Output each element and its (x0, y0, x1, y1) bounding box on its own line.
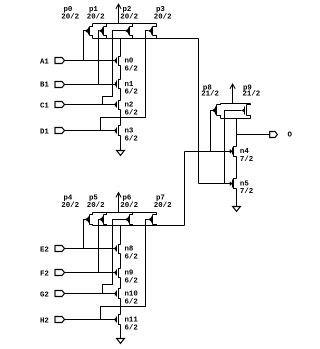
transistor n9 (115, 269, 120, 278)
svg-text:F2: F2 (40, 270, 49, 278)
wire drain bus (bottom NAND output) (93, 225, 185, 227)
label p4 (64, 194, 73, 202)
label p0 (64, 6, 73, 14)
wire top NAND output down (198, 39, 200, 184)
label p2 (123, 6, 132, 14)
wire G2 to gates (65, 293, 116, 295)
svg-text:n4: n4 (240, 148, 249, 156)
port C1 (55, 102, 65, 108)
ground (NAND2) (233, 207, 241, 212)
label n1 (125, 81, 134, 89)
wire output bus down (236, 119, 238, 147)
svg-text:6/2: 6/2 (125, 89, 138, 97)
svg-text:E2: E2 (40, 246, 49, 254)
svg-text:n2: n2 (125, 102, 134, 110)
port E2 (55, 246, 65, 252)
wire p0 gate lead (84, 31, 86, 61)
wire C1 to gates (65, 104, 116, 106)
label n11 (125, 317, 139, 325)
svg-text:n5: n5 (240, 180, 249, 188)
wire chain bus to n0 (120, 39, 122, 57)
wire bottom NAND output up (184, 152, 186, 226)
label n8 (125, 246, 134, 254)
wire n10 to n11 (120, 299, 122, 315)
wire B1 to gates (65, 84, 116, 86)
wire p5 gate lead (99, 220, 100, 273)
svg-text:6/2: 6/2 (125, 324, 138, 332)
label p9 (243, 85, 252, 93)
svg-text:7/2: 7/2 (240, 188, 253, 196)
ground (top NAND) (117, 151, 125, 156)
svg-text:G2: G2 (40, 291, 49, 299)
wire A1 to gates (65, 60, 116, 62)
wire drain bus (top NAND output) (93, 38, 199, 40)
svg-text:20/2: 20/2 (120, 14, 138, 22)
wire n9 to n10 (120, 278, 122, 289)
port G2 (55, 291, 65, 297)
label n10 value 6/2 (125, 298, 138, 306)
transistor p1 (99, 24, 106, 39)
transistor n8 (115, 245, 120, 254)
svg-text:21/2: 21/2 (243, 90, 261, 98)
svg-text:O: O (288, 132, 293, 140)
label p3 (156, 6, 165, 14)
label p0 value 20/2 (61, 14, 79, 22)
wire n4 gate row (185, 151, 231, 153)
svg-text:20/2: 20/2 (154, 202, 172, 210)
label n2 value 6/2 (125, 109, 138, 117)
label n4 (240, 148, 249, 156)
wire p2 gate lead (103, 31, 126, 105)
svg-text:n8: n8 (125, 246, 134, 254)
wire n11 to ground (120, 325, 122, 339)
label n3 value 6/2 (125, 135, 138, 143)
wire E2 to gates (65, 248, 116, 250)
wire n2 to n3 (120, 110, 122, 126)
svg-text:6/2: 6/2 (125, 65, 138, 73)
port O (270, 132, 278, 138)
svg-text:20/2: 20/2 (154, 14, 172, 22)
ground (bottom NAND) (117, 339, 125, 344)
label E2 (40, 246, 49, 254)
wire n0 to n1 (120, 66, 122, 80)
port F2 (55, 270, 65, 276)
transistor n11 (115, 315, 120, 325)
port D1 (55, 128, 65, 134)
label n9 (125, 270, 134, 278)
label p8 value 21/2 (201, 90, 219, 98)
label n8 value 6/2 (125, 253, 138, 261)
svg-text:20/2: 20/2 (61, 14, 79, 22)
wire drain bus (output node) (221, 118, 251, 120)
wire p4 gate lead (84, 220, 86, 249)
wire n4 to n5 (236, 157, 238, 179)
transistor p8 (212, 104, 220, 119)
label D1 (40, 128, 49, 136)
wire n1 to n2 (120, 89, 122, 101)
svg-text:20/2: 20/2 (87, 202, 105, 210)
label O (288, 132, 293, 140)
svg-text:C1: C1 (40, 102, 49, 110)
transistor p4 (85, 213, 92, 226)
svg-text:20/2: 20/2 (120, 202, 138, 210)
label n11 value 6/2 (125, 324, 138, 332)
label F2 (40, 270, 49, 278)
svg-text:20/2: 20/2 (61, 202, 79, 210)
wire p7 gate lead (101, 220, 149, 320)
svg-text:6/2: 6/2 (125, 277, 138, 285)
svg-text:n0: n0 (125, 58, 134, 66)
label H2 (40, 317, 49, 325)
label n5 (240, 180, 249, 188)
label p7 value 20/2 (154, 202, 172, 210)
wire output (237, 134, 270, 136)
label n0 (125, 58, 134, 66)
wire VDD rail (top NAND) (93, 23, 157, 25)
power VDD arrow (NAND2) (230, 84, 235, 104)
label p2 value 20/2 (120, 14, 138, 22)
wire n3 to ground (120, 136, 122, 151)
label n10 (125, 291, 139, 299)
label C1 (40, 102, 49, 110)
transistor n2 (115, 101, 120, 110)
port B1 (55, 82, 65, 88)
transistor p9 (242, 104, 251, 119)
label A1 (40, 58, 49, 66)
svg-text:6/2: 6/2 (125, 298, 138, 306)
transistor p3 (149, 24, 157, 39)
label n4 value 7/2 (240, 156, 253, 164)
power VDD arrow (top NAND) (116, 4, 121, 23)
label p8 (203, 85, 212, 93)
label n9 value 6/2 (125, 277, 138, 285)
label G2 (40, 291, 49, 299)
label p6 value 20/2 (120, 202, 138, 210)
power VDD arrow (bottom NAND) (116, 193, 121, 213)
wire p1 gate lead (99, 31, 100, 85)
label p5 value 20/2 (87, 202, 105, 210)
label p4 value 20/2 (61, 202, 79, 210)
svg-text:20/2: 20/2 (87, 14, 105, 22)
transistor n10 (115, 289, 120, 299)
transistor p5 (99, 213, 106, 226)
label n1 value 6/2 (125, 89, 138, 97)
wire F2 to gates (65, 272, 116, 274)
svg-text:D1: D1 (40, 128, 49, 136)
transistor p6 (125, 213, 132, 226)
transistor p0 (85, 24, 92, 39)
svg-text:A1: A1 (40, 58, 49, 66)
transistor p7 (149, 213, 157, 226)
wire n5 gate row (199, 183, 231, 185)
svg-text:21/2: 21/2 (201, 90, 219, 98)
transistor n5 (230, 179, 237, 189)
wire D1 to gates (65, 130, 116, 132)
label n5 value 7/2 (240, 188, 253, 196)
svg-text:B1: B1 (40, 82, 49, 90)
port A1 (55, 58, 65, 64)
svg-text:n10: n10 (125, 291, 139, 299)
svg-text:6/2: 6/2 (125, 253, 138, 261)
label n0 value 6/2 (125, 65, 138, 73)
label n3 (125, 128, 134, 136)
wire chain bus to n8 (120, 226, 122, 245)
wire VDD rail (NAND2) (221, 103, 251, 105)
wire H2 to gates (65, 319, 116, 321)
transistor n0 (115, 57, 120, 66)
label p3 value 20/2 (154, 14, 172, 22)
transistor n4 (230, 147, 237, 157)
svg-text:6/2: 6/2 (125, 135, 138, 143)
wire p9 gate lead (225, 111, 242, 184)
wire VDD rail (bottom NAND) (93, 212, 157, 214)
label n2 (125, 102, 134, 110)
label p7 (156, 194, 165, 202)
transistor n3 (115, 126, 120, 136)
label p1 (89, 6, 98, 14)
svg-text:7/2: 7/2 (240, 156, 253, 164)
svg-text:n3: n3 (125, 128, 134, 136)
wire n8 to n9 (120, 254, 122, 269)
label B1 (40, 82, 49, 90)
port H2 (55, 317, 65, 323)
label p6 (123, 194, 132, 202)
wire n5 to ground (236, 189, 238, 207)
svg-text:n11: n11 (125, 317, 139, 325)
transistor n1 (115, 80, 120, 89)
svg-text:6/2: 6/2 (125, 109, 138, 117)
wire p8 gate lead (211, 111, 213, 152)
transistor p2 (125, 24, 132, 39)
wire p6 gate lead (103, 220, 126, 294)
svg-text:H2: H2 (40, 317, 49, 325)
label p9 value 21/2 (243, 90, 261, 98)
svg-text:n9: n9 (125, 270, 134, 278)
wire p3 gate lead (101, 31, 149, 131)
label p5 (89, 194, 98, 202)
label p1 value 20/2 (87, 14, 105, 22)
svg-text:n1: n1 (125, 81, 134, 89)
